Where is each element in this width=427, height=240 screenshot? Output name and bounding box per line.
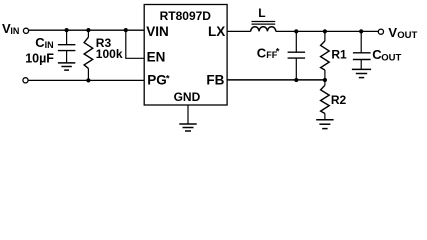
svg-text:10µF: 10µF [25,52,54,66]
svg-text:100k: 100k [96,47,123,61]
node VIN terminal [23,28,28,33]
wire GND stem [187,105,189,124]
capacitor C_IN [58,30,76,62]
ground below CIN [58,63,75,70]
node junction CIN [65,28,69,32]
node junction CFF bottom [294,78,298,82]
wire FB rail [227,79,325,81]
svg-text:IN: IN [45,40,54,50]
wire VOUT rail [276,30,379,32]
resistor R2 [321,80,330,120]
wire LX to inductor [227,30,251,32]
wire VIN rail [29,29,145,31]
resistor R3 [84,30,93,80]
inductor L [251,27,276,32]
wire EN [126,30,144,58]
label VIN [2,21,19,36]
node junction R3 bottom [86,78,90,82]
ground below COUT [352,69,371,77]
svg-text:LX: LX [208,24,225,39]
svg-text:R1: R1 [331,47,347,61]
IC U1 RT8097D regulator box [144,5,227,106]
node PG terminal [23,78,28,83]
ground below IC [179,124,196,131]
svg-text:R2: R2 [331,93,347,107]
svg-text:C: C [257,45,267,60]
svg-text:RT8097D: RT8097D [160,9,212,23]
svg-text:*: * [276,47,280,58]
node junction EN [124,28,128,32]
svg-text:PG: PG [147,73,167,88]
label COUT [372,47,401,64]
label VOUT [388,25,417,41]
svg-text:EN: EN [147,50,166,65]
node junction CFF [294,29,298,33]
label CIN [35,35,53,50]
node VOUT terminal [378,29,383,34]
capacitor CFF [288,31,306,80]
wire PG [28,79,144,81]
svg-text:OUT: OUT [381,53,401,64]
svg-text:FB: FB [206,73,224,88]
inductor core bars [252,22,276,25]
resistor R1 [321,31,330,80]
svg-text:L: L [258,6,265,20]
svg-text:V: V [388,25,397,40]
svg-text:IN: IN [10,26,19,36]
svg-text:VIN: VIN [146,24,169,39]
node junction FB R1 R2 [323,78,327,82]
node junction COUT [359,29,363,33]
node junction R3 [86,28,90,32]
ground below R2 [316,120,333,129]
svg-text:OUT: OUT [397,30,417,41]
capacitor COUT [353,31,371,69]
node junction R1 [323,29,327,33]
svg-text:GND: GND [174,90,201,104]
label CFF* [257,45,280,60]
svg-text:*: * [166,74,170,85]
